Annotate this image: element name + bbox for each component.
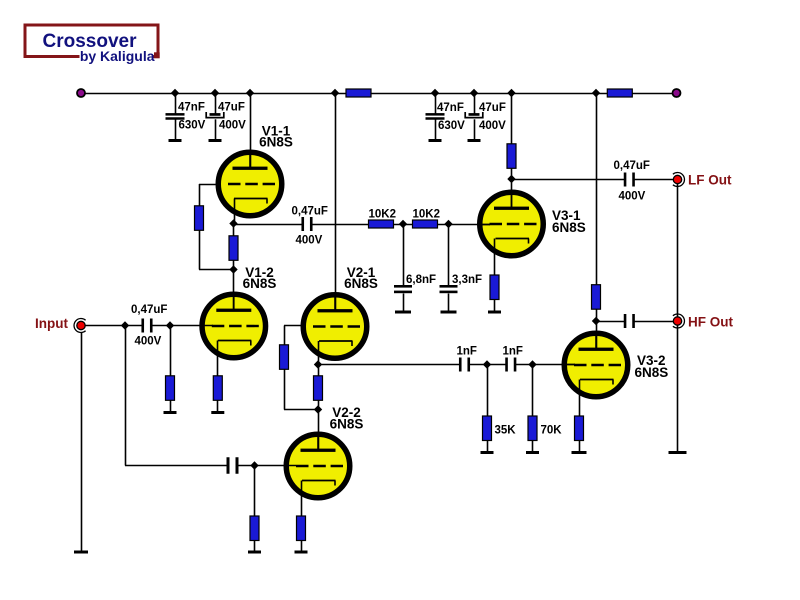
wire V1-1 grid drop lower: [199, 230, 201, 270]
resistor V2-2 cathode: [297, 516, 306, 541]
svg-text:0,47uF: 0,47uF: [131, 304, 167, 316]
wire output common upper: [677, 184, 679, 317]
wire below 35K: [487, 441, 489, 452]
wire V3-2 grid entry: [562, 364, 575, 366]
wire V1-2 cathode resistor lower: [217, 400, 219, 411]
svg-text:47nF: 47nF: [178, 102, 205, 114]
wire V2-2 cathode lead: [301, 481, 303, 517]
svg-text:400V: 400V: [135, 336, 162, 348]
wire V3-1 cathode lead: [494, 239, 496, 276]
capacitor 47nF right: [426, 113, 445, 116]
wire V2-2 plate lead: [318, 410, 320, 451]
junction filter node A: [399, 220, 407, 228]
triode V1-2: [202, 293, 265, 358]
wire below 70K: [532, 441, 534, 452]
resistor 10K2 second: [413, 220, 438, 228]
wire below V1-1 cathode resistor: [233, 260, 235, 270]
svg-text:6N8S: 6N8S: [344, 276, 378, 291]
wire node D to 70K: [532, 365, 534, 417]
wire drop to C 47nF right: [435, 93, 437, 114]
wire cap to V2-2 grid: [237, 465, 296, 467]
svg-text:0,47uF: 0,47uF: [614, 160, 650, 172]
svg-text:by Kaligula: by Kaligula: [80, 48, 155, 64]
resistor V1-2 grid leak: [166, 376, 175, 401]
wire V2-2 cathode resistor lower: [301, 541, 303, 552]
resistor 70K: [528, 416, 537, 441]
wire below 47nF right: [435, 120, 437, 140]
wire V2-1 cathode lead: [318, 341, 320, 365]
wire below 6,8nF: [403, 294, 405, 312]
svg-text:630V: 630V: [179, 120, 206, 132]
resistor 10K2 first: [369, 220, 394, 228]
end bar below V3-2 cathode resistor: [572, 451, 587, 454]
junction V1-2 grid node: [166, 321, 174, 329]
terminal supply right: [673, 89, 681, 97]
wire 1nF to V3-2 grid: [516, 364, 576, 366]
wire V3-2 anode branch upper: [596, 93, 598, 285]
svg-text:400V: 400V: [619, 191, 646, 203]
end bar below V3-1 cathode resistor: [488, 311, 501, 314]
wire V1-1 grid to V1-2 plate: [199, 269, 234, 271]
end bar below input: [74, 551, 88, 554]
wire V1-2 plate lead: [233, 270, 235, 310]
wire drop to C 47uF left: [215, 93, 217, 114]
capacitor 1nF second: [505, 358, 508, 372]
wire output common lower: [677, 326, 679, 452]
capacitor HF output: [624, 314, 627, 328]
end bar below V2-2 grid resistor: [248, 551, 261, 554]
triode V2-1: [303, 294, 367, 359]
wire V1-2 grid resistor upper: [170, 326, 172, 377]
end bar below V2-2 cathode resistor: [295, 551, 308, 554]
capacitor 0,47uF LF output: [624, 173, 627, 187]
resistor V3-2 anode load: [592, 285, 601, 310]
end bar below 47nF right: [429, 139, 442, 142]
junction filter node B: [444, 220, 452, 228]
resistor V1-1 cathode: [229, 236, 238, 260]
wire V3-2 cathode lead: [579, 380, 581, 417]
svg-text:47uF: 47uF: [479, 102, 506, 114]
junction V3-2 anode node: [592, 317, 600, 325]
junction rail x435: [431, 89, 439, 97]
junction V1-2 plate node: [229, 265, 237, 273]
end bar below 3,3nF: [441, 311, 457, 314]
junction filter node C: [483, 360, 491, 368]
capacitor 47nF left: [166, 113, 185, 116]
wire below 3,3nF: [448, 294, 450, 312]
svg-text:6N8S: 6N8S: [259, 135, 293, 150]
wire 10K2 to V3-1 grid: [438, 224, 491, 226]
wire top supply rail: [81, 93, 672, 95]
svg-text:0,47uF: 0,47uF: [292, 206, 328, 218]
wire V2-1 cathode resistor lower: [318, 400, 320, 409]
wire V1-1 grid horizontal: [199, 184, 216, 186]
capacitor 1nF first: [459, 358, 462, 372]
junction rail x596: [592, 89, 600, 97]
wire coupling cap to 10K2: [312, 224, 369, 226]
terminal supply left: [77, 89, 85, 97]
wire V1-1 plate lead: [250, 93, 252, 168]
wire input cap to V1-2 grid: [152, 325, 213, 327]
svg-text:HF Out: HF Out: [688, 315, 733, 330]
svg-text:6N8S: 6N8S: [243, 276, 277, 291]
wire drop to C 47uF right: [474, 93, 476, 114]
terminal LF Out: [673, 173, 685, 187]
capacitor 3,3nF: [440, 285, 458, 288]
end bar below 35K: [481, 451, 494, 454]
resistor V1-1 grid: [195, 206, 204, 231]
capacitor 47uF right (polarized): [469, 113, 480, 116]
wire V2-1 plate lead (long): [335, 93, 337, 310]
junction V1-1 cathode node: [229, 219, 237, 227]
wire V2-1 grid drop upper: [284, 326, 286, 346]
wire V2-1 grid drop lower: [284, 369, 286, 409]
wire V2-1 cathode to 1nF: [318, 364, 461, 366]
resistor V2-1 cathode: [314, 376, 323, 401]
wire V3-2 anode branch lower: [596, 309, 598, 349]
wire node A to 6,8nF: [403, 224, 405, 286]
end bar below 47nF left: [169, 139, 182, 142]
end bar below 47uF left: [209, 139, 222, 142]
triode V1-1: [218, 151, 282, 216]
wire node C to 35K: [487, 365, 489, 417]
wire node B to 3,3nF: [448, 224, 450, 286]
svg-text:630V: 630V: [438, 120, 465, 132]
capacitor 0,47uF input: [141, 319, 144, 333]
wire V1-1 out to coupling cap: [234, 224, 303, 226]
resistor V1-2 cathode: [213, 376, 222, 401]
resistor supply rail right: [607, 89, 632, 97]
resistor V3-1 anode load: [507, 144, 516, 169]
junction rail x511: [507, 89, 515, 97]
end bar below 6,8nF: [395, 311, 411, 314]
svg-text:3,3nF: 3,3nF: [452, 274, 482, 286]
wire V2-1 grid to plate node: [284, 409, 318, 411]
svg-text:Input: Input: [35, 316, 68, 331]
wire V1-1 cathode to resistor: [233, 224, 235, 237]
svg-text:1nF: 1nF: [503, 346, 523, 358]
wire V3-1 cathode resistor lower: [494, 300, 496, 312]
wire LF output left segment: [512, 179, 626, 181]
wire below 47uF right: [474, 119, 476, 139]
junction rail x335: [331, 89, 339, 97]
resistor supply rail left: [346, 89, 371, 97]
terminal Input: [74, 319, 86, 333]
wire HF output right segment: [633, 321, 673, 323]
byline corner square: [154, 52, 160, 58]
junction V2-2 grid node: [250, 461, 258, 469]
wire V3-2 cathode resistor lower: [579, 441, 581, 452]
capacitor V2-2 grid coupling: [227, 457, 230, 474]
wire V2-1 cathode resistor upper: [318, 365, 320, 377]
wire below 47nF left: [175, 120, 177, 140]
capacitor 6,8nF: [394, 285, 412, 288]
wire V1-2 grid resistor lower: [170, 400, 172, 411]
wire drop to C 47nF left: [175, 93, 177, 114]
triode V2-2: [286, 433, 350, 498]
triode V3-1: [480, 191, 544, 256]
title box frame: [25, 25, 158, 57]
junction filter node D: [528, 360, 536, 368]
wire V1-1 grid drop upper: [199, 184, 201, 206]
end bar below 47uF right: [468, 139, 481, 142]
svg-text:35K: 35K: [495, 425, 517, 437]
junction V3-1 anode node: [507, 175, 515, 183]
wire 1nF to node C: [469, 364, 506, 366]
wire V2-1 grid horizontal: [284, 325, 301, 327]
wire HF output left segment: [596, 321, 626, 323]
svg-text:6,8nF: 6,8nF: [406, 274, 436, 286]
capacitor 47uF left (polarized): [210, 113, 221, 116]
junction input node: [121, 321, 129, 329]
junction rail x250: [246, 89, 254, 97]
junction V2-2 plate node: [314, 405, 322, 413]
white gap in frame under byline: [80, 50, 154, 63]
terminal HF Out: [673, 314, 685, 328]
wire V3-1 anode branch upper: [511, 93, 513, 144]
junction rail x215: [211, 89, 219, 97]
wire below 47uF left: [215, 119, 217, 139]
wire input branch down: [125, 326, 127, 466]
wire V2-2 grid resistor lower: [254, 541, 256, 552]
resistor V3-2 cathode: [575, 416, 584, 441]
resistor V2-1 grid: [280, 345, 289, 370]
resistor V2-2 grid leak: [250, 516, 259, 541]
end bar below 70K: [526, 451, 539, 454]
svg-text:400V: 400V: [219, 120, 246, 132]
svg-text:6N8S: 6N8S: [330, 417, 364, 432]
svg-text:400V: 400V: [296, 235, 323, 247]
resistor V3-1 cathode: [490, 275, 499, 300]
end bar output common: [669, 451, 687, 454]
svg-text:1nF: 1nF: [457, 346, 477, 358]
wire LF output right segment: [633, 179, 673, 181]
wire between 10K2s: [394, 224, 413, 226]
svg-text:400V: 400V: [479, 120, 506, 132]
svg-text:6N8S: 6N8S: [635, 365, 669, 380]
wire V3-1 anode branch lower: [511, 168, 513, 208]
svg-text:47nF: 47nF: [437, 102, 464, 114]
svg-text:10K2: 10K2: [413, 209, 441, 221]
junction rail x175: [171, 89, 179, 97]
svg-text:10K2: 10K2: [369, 209, 397, 221]
wire V1-2 cathode lead: [217, 341, 219, 377]
wire V3-1 grid entry: [479, 224, 491, 226]
wire input ground drop: [81, 333, 83, 552]
wire V2-2 grid resistor upper: [254, 466, 256, 517]
svg-text:6N8S: 6N8S: [552, 220, 586, 235]
junction V2-1 cathode node: [314, 360, 322, 368]
wire input to junction: [86, 325, 143, 327]
junction rail x474: [470, 89, 478, 97]
svg-text:70K: 70K: [541, 425, 563, 437]
wire input branch to V2-2: [125, 465, 228, 467]
wire V1-1 cathode lead: [234, 199, 236, 224]
end bar below V1-2 cathode resistor: [211, 411, 224, 414]
svg-text:LF Out: LF Out: [688, 173, 732, 188]
resistor 35K: [483, 416, 492, 441]
end bar below V1-2 grid resistor: [164, 411, 177, 414]
svg-text:47uF: 47uF: [218, 102, 245, 114]
capacitor 0,47uF interstage: [301, 217, 304, 231]
triode V3-2: [564, 332, 628, 397]
